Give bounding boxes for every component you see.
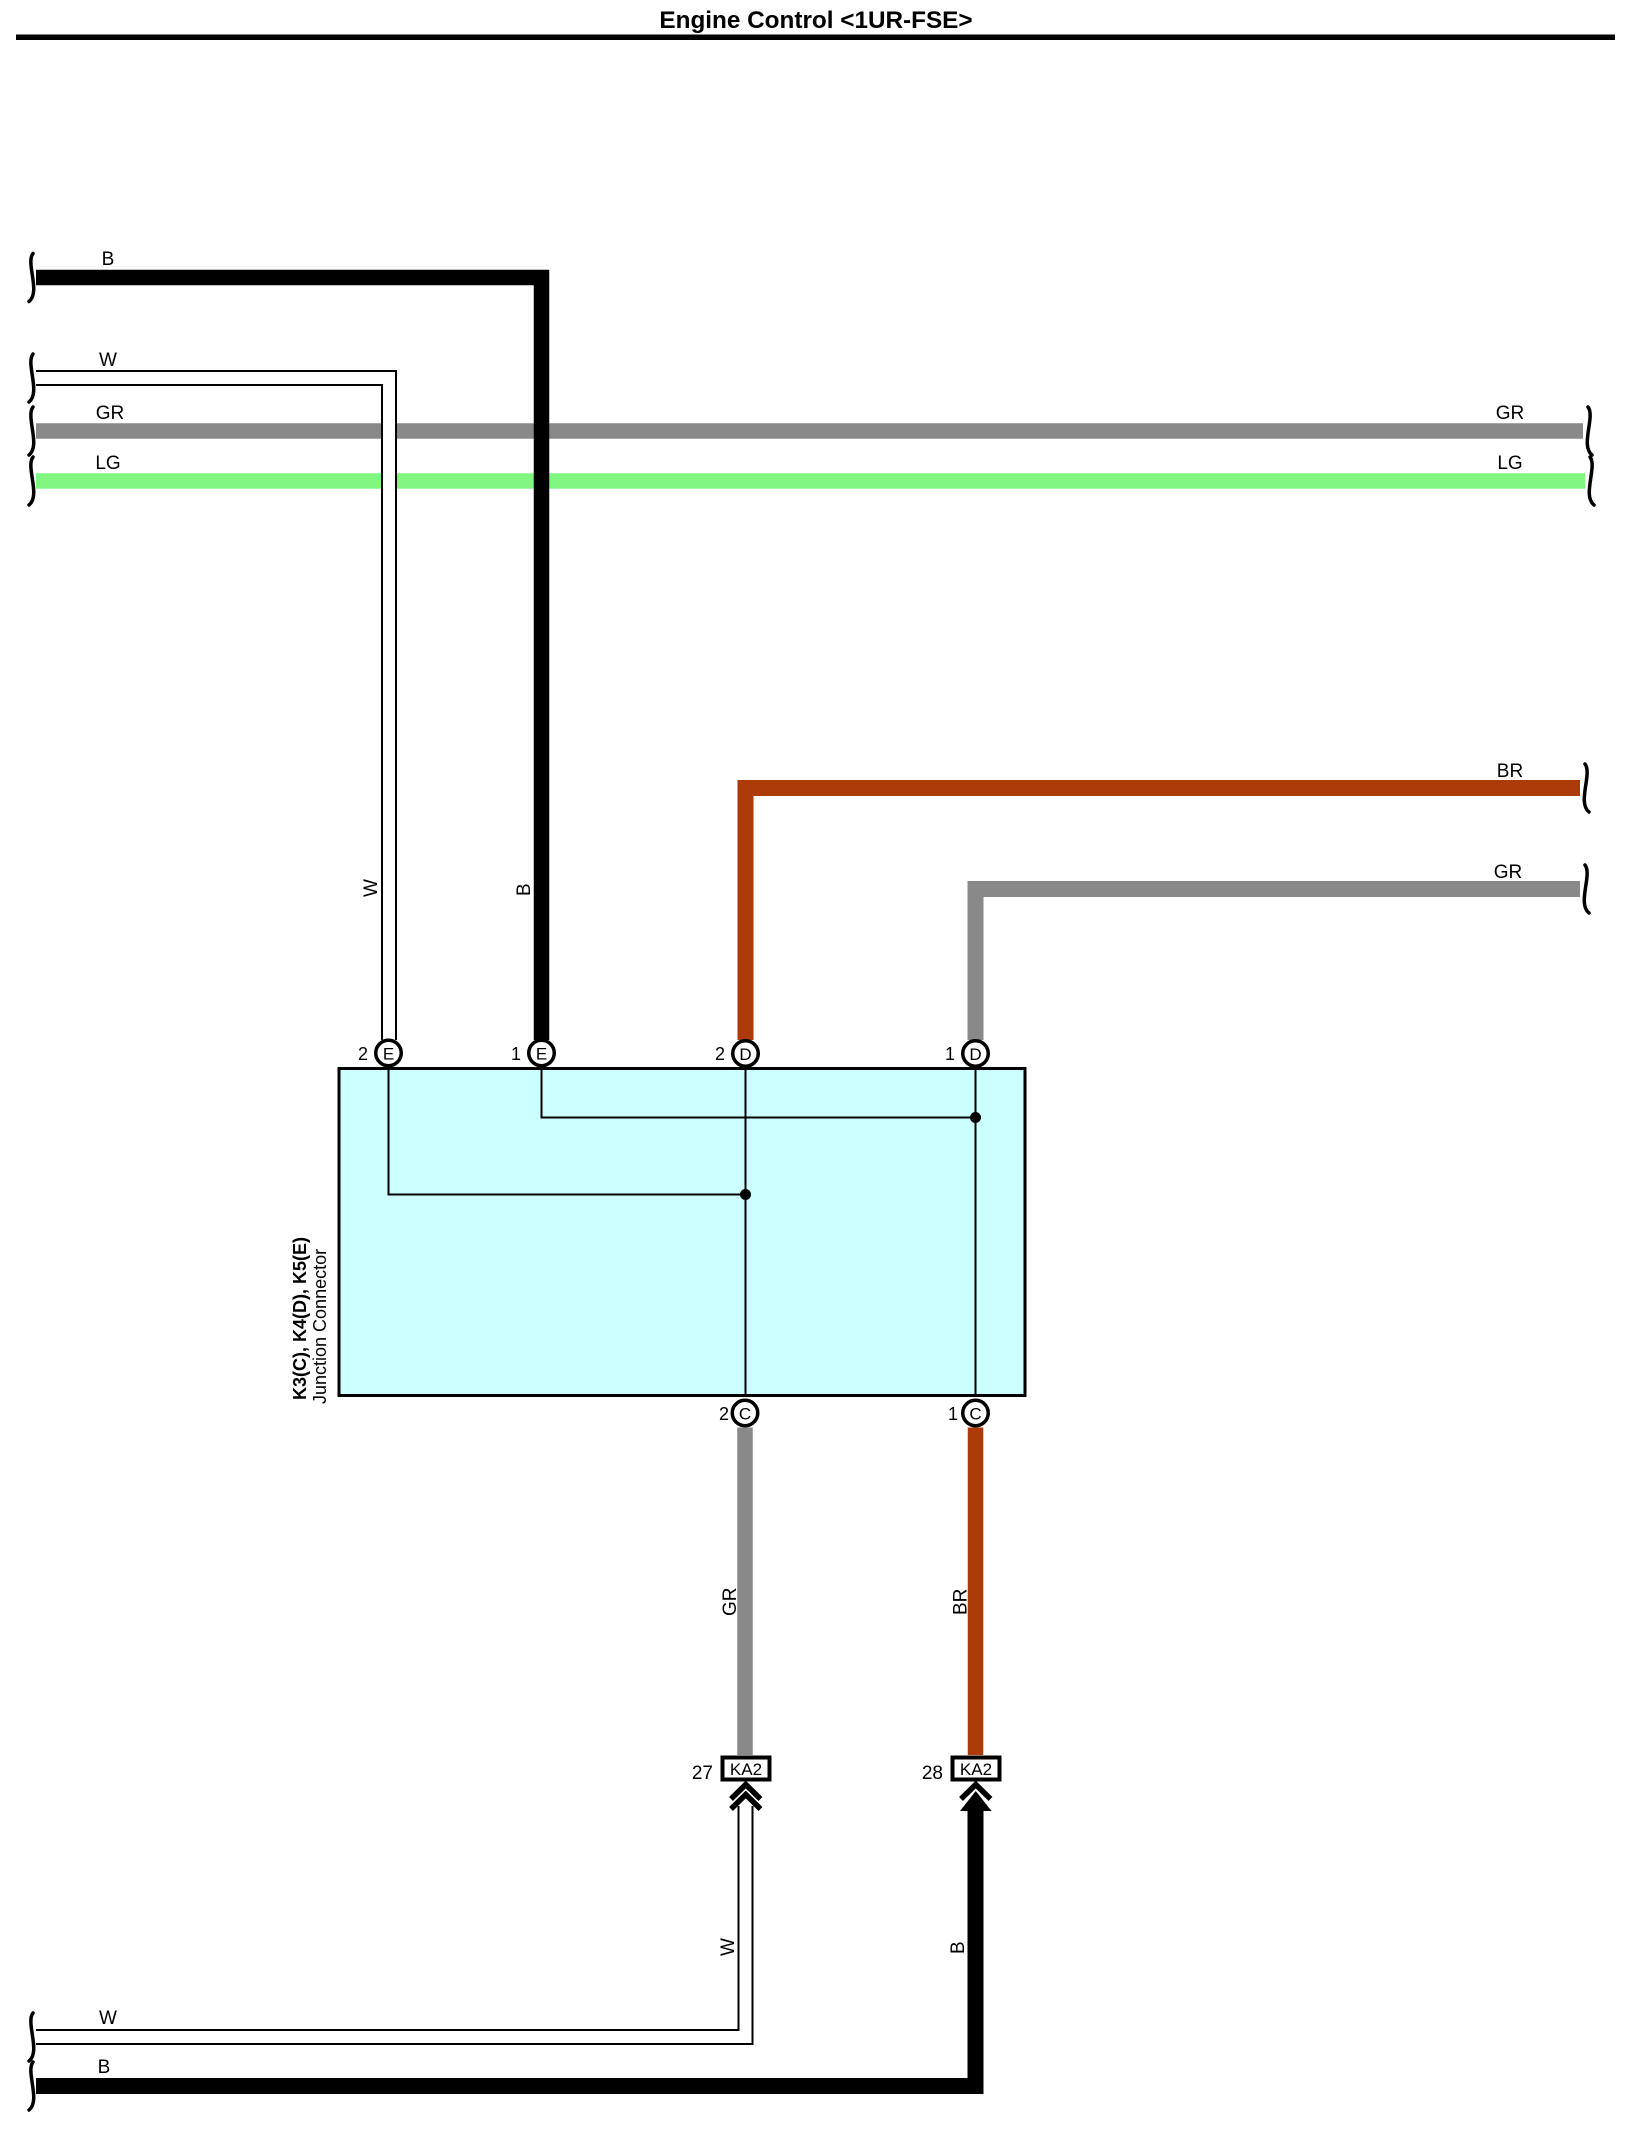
wire GR (gray, right break to D1 vertical): [976, 889, 1581, 1040]
break symbol right of wire GR: [1587, 407, 1592, 455]
svg-text:28: 28: [922, 1763, 943, 1784]
break symbol right of wire BR: [1584, 764, 1589, 812]
wire BR from C1 to connector KA2 pin 28: [968, 1428, 984, 1756]
pin 1 E: [511, 1040, 554, 1066]
label GR (top right): [1496, 403, 1525, 424]
break symbol left of wire LG: [29, 457, 34, 505]
svg-text:GR: GR: [1496, 403, 1525, 424]
svg-text:LG: LG: [1497, 453, 1522, 474]
break symbol left of wire GR: [29, 407, 34, 455]
svg-text:D: D: [739, 1045, 751, 1064]
break symbol left of wire W: [29, 354, 34, 402]
connector KA2 pin 27: [692, 1758, 770, 1785]
svg-text:BR: BR: [951, 1589, 972, 1615]
svg-text:Engine Control <1UR-FSE>: Engine Control <1UR-FSE>: [659, 7, 972, 34]
svg-text:LG: LG: [95, 453, 120, 474]
label B (bottom left horizontal): [98, 2057, 111, 2078]
svg-text:GR: GR: [96, 403, 125, 424]
page-link arrow chevrons below KA2 27: [731, 1785, 761, 1810]
label B (rotated, on vertical segment): [514, 883, 535, 896]
internal wire D1 to C1: [975, 1067, 977, 1397]
break symbol left of wire B: [29, 254, 34, 302]
connector KA2 pin 28: [922, 1758, 1000, 1785]
svg-text:GR: GR: [720, 1588, 741, 1617]
pin 2 C: [719, 1400, 758, 1426]
svg-text:KA2: KA2: [960, 1760, 992, 1779]
wire LG (light green, full width): [36, 473, 1585, 489]
label W (rotated, bottom vertical): [718, 1938, 739, 1956]
break symbol right of wire GR second: [1584, 865, 1589, 913]
label Junction Connector (rotated): [310, 1249, 330, 1404]
svg-text:W: W: [361, 879, 382, 897]
wire BR (brown, right break to D2 vertical): [746, 788, 1581, 1040]
svg-text:E: E: [536, 1045, 547, 1064]
label B (rotated, bottom vertical): [948, 1941, 969, 1954]
svg-text:B: B: [102, 249, 115, 270]
junction connector K3(C), K4(D), K5(E) box: [339, 1069, 1025, 1396]
svg-text:C: C: [969, 1405, 981, 1424]
svg-text:E: E: [383, 1045, 394, 1064]
svg-text:2: 2: [719, 1404, 729, 1424]
svg-text:Junction Connector: Junction Connector: [310, 1249, 330, 1404]
solid arrow head on wire B bottom: [960, 1791, 992, 1811]
pin 1 C: [948, 1400, 988, 1426]
label GR (rotated, C2 wire): [720, 1588, 741, 1617]
wire GR top (gray, full width): [36, 423, 1583, 439]
svg-text:D: D: [969, 1045, 981, 1064]
title Engine Control <1UR-FSE>: [16, 7, 1615, 40]
label K3(C), K4(D), K5(E) (rotated): [290, 1237, 310, 1400]
label W (top left horizontal wire): [99, 350, 117, 371]
label LG (top left): [95, 453, 120, 474]
svg-text:1: 1: [511, 1044, 521, 1064]
svg-text:W: W: [99, 350, 117, 371]
svg-text:2: 2: [715, 1044, 725, 1064]
label BR (rotated, C1 wire): [951, 1589, 972, 1615]
pin 2 E: [358, 1040, 401, 1066]
label W (rotated, on vertical segment): [361, 879, 382, 897]
svg-text:2: 2: [358, 1044, 368, 1064]
label GR (top left): [96, 403, 125, 424]
wire B bottom (thick black, from arrow down and left to break): [36, 1806, 976, 2086]
pin 2 D: [715, 1041, 758, 1067]
svg-text:KA2: KA2: [730, 1760, 762, 1779]
wire W bottom (white wire, from arrow down and left to break): [36, 1803, 746, 2037]
svg-text:W: W: [718, 1938, 739, 1956]
svg-text:W: W: [99, 2008, 117, 2029]
label LG (top right): [1497, 453, 1522, 474]
svg-text:GR: GR: [1494, 862, 1523, 883]
wire W top (white wire with black outline, left break to E2 vertical): [36, 378, 389, 1041]
svg-text:BR: BR: [1497, 761, 1523, 782]
internal wire E2 to D2 with junction dot: [389, 1067, 752, 1200]
label GR (right, second): [1494, 862, 1523, 883]
pin 1 D: [945, 1041, 988, 1067]
svg-text:B: B: [514, 883, 535, 896]
label W (bottom left horizontal): [99, 2008, 117, 2029]
internal wire D2 to C2: [745, 1067, 747, 1397]
label B (top left horizontal wire): [102, 249, 115, 270]
break symbol left of wire W bottom: [29, 2013, 34, 2061]
wire B top (thick black, left break to E1 vertical): [36, 278, 542, 1041]
wire GR from C2 to connector KA2 pin 27: [737, 1428, 753, 1756]
label BR (right): [1497, 761, 1523, 782]
page-link arrow chevron below KA2 28: [961, 1785, 991, 1800]
internal wire E1 to D1 with junction dot: [542, 1067, 982, 1123]
svg-text:27: 27: [692, 1763, 713, 1784]
svg-text:B: B: [98, 2057, 111, 2078]
svg-text:1: 1: [945, 1044, 955, 1064]
svg-text:1: 1: [948, 1404, 958, 1424]
svg-text:B: B: [948, 1941, 969, 1954]
break symbol right of wire LG: [1589, 457, 1594, 505]
break symbol left of wire B bottom: [29, 2062, 34, 2110]
svg-text:K3(C), K4(D), K5(E): K3(C), K4(D), K5(E): [290, 1237, 310, 1400]
svg-text:C: C: [739, 1405, 751, 1424]
